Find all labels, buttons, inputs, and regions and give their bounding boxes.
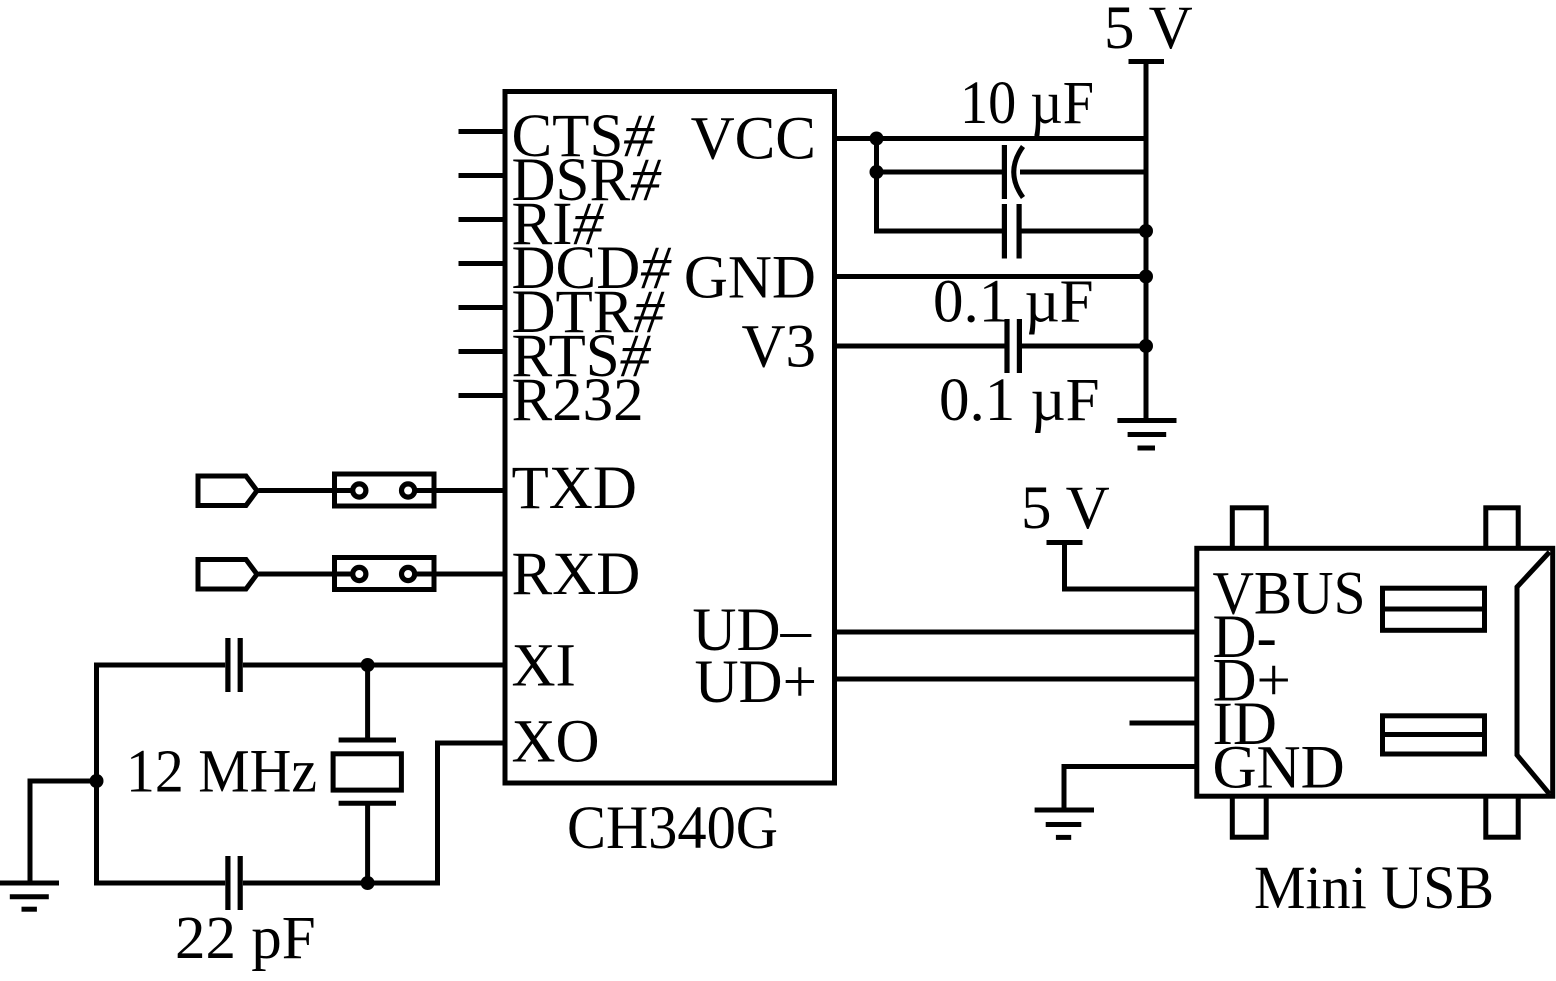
junction dot ground branch [90, 774, 104, 788]
wire UD+ to D+ [835, 677, 1197, 682]
ground symbol top right [1117, 418, 1176, 423]
wire V3 pin to cap [835, 344, 1005, 349]
junction dot bus/0.1uF [1139, 224, 1153, 238]
svg-text:CH340G: CH340G [567, 795, 778, 862]
wire bottom right segment + XO riser [243, 743, 505, 883]
mini usb mounting tab bottom left [1232, 795, 1266, 837]
capacitor C3 0.1uF plates [1004, 319, 1009, 373]
svg-text:XI: XI [512, 633, 576, 700]
svg-text:XO: XO [512, 709, 600, 776]
wire jumper JP2 inner stubs [335, 572, 354, 577]
pin stub CTS# [459, 129, 506, 134]
svg-text:5 V: 5 V [1021, 475, 1110, 542]
wire jumper JP1 inner stubs [335, 488, 354, 493]
svg-text:5 V: 5 V [1104, 0, 1193, 62]
IC U1 CH340G body [505, 92, 835, 784]
junction dot VCC [870, 132, 884, 146]
wire jumper to TXD pin [434, 488, 505, 493]
mini usb shell bevel [1517, 552, 1550, 794]
power symbol 5V bar (usb) [1047, 540, 1083, 545]
svg-text:12 MHz: 12 MHz [126, 739, 317, 806]
wire XI left segment + loop left vertical + bottom left segment [97, 665, 226, 883]
pin stub RTS# [459, 349, 506, 354]
wire UD- to D- [835, 630, 1197, 635]
svg-text:VCC: VCC [691, 105, 816, 172]
pin stub DTR# [459, 305, 506, 310]
svg-text:R232: R232 [512, 367, 644, 434]
svg-text:RXD: RXD [512, 541, 641, 608]
wire GND pin to bus [835, 274, 1146, 279]
wire 10uF cap row left [877, 170, 1003, 175]
pin stub DCD# [459, 261, 506, 266]
ground symbol bottom left [0, 881, 59, 886]
crystal Y1 top electrode [339, 738, 396, 743]
pin stub RI# [459, 217, 506, 222]
svg-text:TXD: TXD [512, 455, 637, 522]
wire 10uF cap row right [1020, 170, 1146, 175]
jumper JP1 body [335, 474, 435, 506]
mini usb contact pad bottom [1383, 716, 1485, 754]
pin stub DSR# [459, 173, 506, 178]
jumper JP2 body [335, 558, 435, 590]
capacitor C4 22pF plates [225, 638, 230, 692]
svg-text:0.1 µF: 0.1 µF [939, 367, 1100, 434]
svg-text:22 pF: 22 pF [175, 905, 316, 972]
connector J2 RXD tag [198, 560, 257, 590]
wire ground branch [30, 781, 97, 883]
net 5V bus vertical [1144, 62, 1149, 421]
svg-text:GND: GND [1213, 735, 1345, 802]
connector J1 TXD tag [198, 476, 257, 506]
svg-text:0.1 µF: 0.1 µF [933, 269, 1094, 336]
mini usb contact pad top [1383, 588, 1485, 630]
junction dot 10uF row [870, 165, 884, 179]
junction dot bus/GND [1139, 270, 1153, 284]
power symbol 5V bar (top right) [1129, 59, 1165, 64]
wire GND to ground [1064, 767, 1197, 811]
wire crystal bottom stem [365, 803, 370, 883]
mini usb mounting tab top right [1486, 508, 1518, 550]
wire VCC branch down [877, 139, 1003, 232]
ground symbol usb [1035, 808, 1094, 813]
wire TXD tag to jumper [259, 488, 335, 493]
junction dot bus/V3 [1139, 339, 1153, 353]
svg-text:Mini USB: Mini USB [1254, 855, 1494, 922]
crystal Y1 bottom electrode [339, 801, 396, 806]
wire crystal top stem [365, 665, 370, 740]
wire RXD tag to jumper [259, 572, 335, 577]
mini usb mounting tab top left [1232, 508, 1266, 550]
junction dot bottom/crystal [361, 876, 375, 890]
junction dot XI/crystal [361, 658, 375, 672]
wire 0.1uF cap row right [1022, 229, 1147, 234]
svg-text:GND: GND [684, 245, 816, 312]
capacitor C2 0.1uF plates [1002, 204, 1007, 259]
pin stub ID [1130, 721, 1198, 726]
svg-text:UD+: UD+ [694, 649, 817, 716]
wire 5V to VBUS [1065, 543, 1198, 590]
crystal Y1 body [333, 754, 401, 790]
svg-text:V3: V3 [741, 313, 816, 380]
svg-text:10 µF: 10 µF [960, 70, 1094, 137]
jumper JP1 pin circles [353, 484, 366, 497]
jumper JP2 pin circles [353, 567, 366, 580]
pin stub R232 [459, 393, 506, 398]
capacitor C5 22pF plates [225, 856, 230, 910]
wire XI right segment [243, 663, 505, 668]
capacitor C1 10uF plates [1002, 145, 1007, 199]
connector J3 Mini USB body [1197, 548, 1553, 796]
wire VCC pin to 5V bus [835, 136, 1146, 141]
mini usb mounting tab bottom right [1486, 795, 1518, 837]
wire jumper to RXD pin [434, 572, 505, 577]
wire V3 cap to bus [1022, 344, 1147, 349]
